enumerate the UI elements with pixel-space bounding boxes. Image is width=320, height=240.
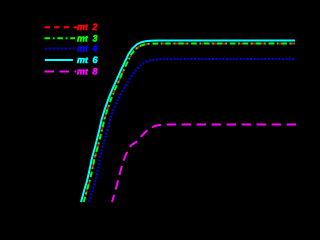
legend cyan solid sample	[45, 59, 73, 61]
legend label mt=3	[77, 33, 98, 43]
legend red dashed sample	[45, 26, 78, 28]
legend green dash-dot sample	[45, 37, 76, 39]
svg-text:mt: mt	[77, 22, 88, 32]
svg-text:2: 2	[92, 22, 98, 32]
svg-text:mt: mt	[77, 44, 88, 54]
legend magenta dashed sample	[45, 71, 77, 73]
legend blue dotted sample	[45, 47, 74, 49]
legend label mt=8	[77, 67, 98, 77]
svg-text:3: 3	[93, 33, 98, 43]
svg-text:8: 8	[93, 67, 98, 77]
curve mt=2 red dashed	[84, 44, 295, 203]
curve mt=8 magenta long-dash	[112, 125, 296, 203]
curve mt=3 green dash-dot	[84, 44, 295, 203]
legend label mt=2	[77, 22, 98, 32]
curve mt=6 cyan solid	[81, 41, 295, 203]
svg-text:mt: mt	[77, 67, 88, 77]
svg-text:mt: mt	[77, 55, 88, 65]
legend label mt=4	[77, 44, 98, 54]
svg-text:mt: mt	[77, 33, 88, 43]
legend label mt=6	[77, 55, 99, 65]
svg-text:4: 4	[92, 44, 98, 54]
curve mt=4 blue dotted	[89, 59, 295, 202]
